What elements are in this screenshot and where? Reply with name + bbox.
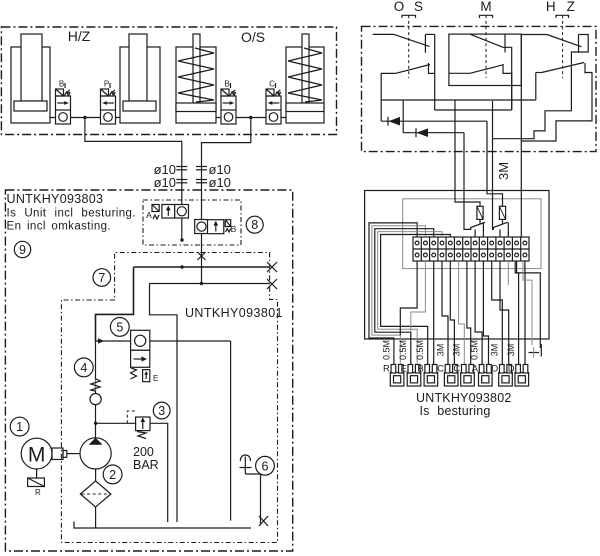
svg-text:0.5M: 0.5M [398,340,408,360]
svg-text:P: P [104,80,109,89]
svg-text:A: A [146,210,152,220]
svg-text:UNTKHY093801: UNTKHY093801 [185,306,283,320]
svg-text:A: A [472,364,479,375]
svg-text:R: R [383,364,390,375]
svg-text:M: M [28,444,46,467]
svg-text:E: E [400,364,406,375]
svg-text:H/Z: H/Z [68,28,91,44]
svg-text:C: C [437,364,444,375]
svg-text:ø10: ø10 [154,175,176,190]
svg-text:0.5M: 0.5M [470,340,480,360]
svg-text:3M: 3M [506,344,516,357]
svg-text:B: B [231,224,237,234]
svg-text:UNTKHY093803: UNTKHY093803 [7,192,104,206]
svg-text:8: 8 [251,218,258,232]
svg-text:B: B [224,80,229,89]
svg-text:Z: Z [567,0,575,14]
svg-text:D: D [508,364,515,375]
svg-text:3M: 3M [490,344,500,357]
svg-text:9: 9 [19,243,26,257]
svg-text:2: 2 [109,468,116,482]
svg-text:0.5M: 0.5M [381,340,391,360]
svg-text:R: R [35,488,41,497]
svg-text:H: H [546,0,556,14]
svg-text:B: B [417,364,423,375]
svg-text:C: C [269,80,275,89]
svg-text:3M: 3M [435,344,445,357]
svg-text:0.5M: 0.5M [415,340,425,360]
svg-text:6: 6 [262,459,269,473]
svg-text:1: 1 [16,420,23,434]
svg-text:3M: 3M [496,162,511,180]
svg-text:O/S: O/S [241,29,265,45]
svg-text:4: 4 [80,361,87,375]
svg-text:Is besturing: Is besturing [420,404,491,418]
svg-text:O: O [394,0,405,14]
svg-text:S: S [414,0,423,14]
svg-text:7: 7 [98,271,105,285]
svg-text:UNTKHY093802: UNTKHY093802 [416,391,512,405]
svg-text:En incl omkasting.: En incl omkasting. [7,221,112,233]
svg-text:5: 5 [116,320,123,334]
svg-text:ø10: ø10 [209,175,231,190]
svg-text:M: M [480,0,491,14]
svg-text:B: B [59,80,64,89]
svg-text:200: 200 [133,445,154,459]
svg-text:3M: 3M [452,344,462,357]
svg-text:E: E [153,374,158,383]
svg-text:BAR: BAR [133,458,159,472]
svg-text:Is Unit incl besturing.: Is Unit incl besturing. [7,208,136,220]
svg-text:3: 3 [158,404,165,418]
svg-text:D: D [491,364,498,375]
svg-text:C: C [453,364,460,375]
